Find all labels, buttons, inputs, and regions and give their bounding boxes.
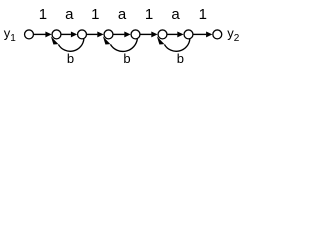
back transition q3-q2 arc bbox=[58, 39, 84, 52]
state q8 bbox=[213, 30, 222, 39]
transition q7-q8 wire bbox=[193, 33, 206, 35]
transition q1-q2 arrowhead bbox=[45, 31, 51, 37]
transition q5-q6 arrowhead bbox=[151, 31, 157, 37]
back transition q5-q4 arrowhead bbox=[103, 36, 111, 44]
transition q4-q5 wire bbox=[113, 33, 124, 35]
state q3 bbox=[78, 30, 87, 39]
back transition q5-q4 arc bbox=[110, 39, 137, 52]
transition q2-q3 arrowhead bbox=[71, 31, 77, 37]
back transition q7-q6 arrowhead bbox=[157, 36, 165, 44]
transition q2-q3 wire bbox=[61, 33, 71, 35]
transition q5-q6 wire bbox=[140, 33, 151, 35]
transition q3-q4 arrowhead bbox=[97, 31, 103, 37]
transition q6-q7 arrowhead bbox=[177, 31, 183, 37]
svg-text:b: b bbox=[67, 51, 74, 66]
svg-text:a: a bbox=[65, 6, 74, 23]
back transition q7-q6 arc bbox=[164, 39, 190, 52]
svg-text:a: a bbox=[118, 6, 127, 23]
state q5 bbox=[131, 30, 140, 39]
svg-text:1: 1 bbox=[145, 6, 153, 23]
svg-text:b: b bbox=[123, 51, 130, 66]
transition q3-q4 wire bbox=[87, 33, 98, 35]
svg-text:1: 1 bbox=[199, 6, 207, 23]
svg-text:b: b bbox=[177, 51, 184, 66]
svg-text:y2: y2 bbox=[227, 25, 240, 44]
state q6 bbox=[158, 30, 167, 39]
transition q7-q8 arrowhead bbox=[206, 31, 212, 37]
transition q6-q7 wire bbox=[167, 33, 177, 35]
svg-text:a: a bbox=[171, 6, 180, 23]
svg-text:y1: y1 bbox=[4, 25, 16, 44]
back transition q3-q2 arrowhead bbox=[51, 36, 59, 44]
svg-text:1: 1 bbox=[39, 6, 47, 23]
state q7 bbox=[184, 30, 193, 39]
state q2 bbox=[52, 30, 61, 39]
transition q1-q2 wire bbox=[34, 33, 46, 35]
state q1 bbox=[25, 30, 34, 39]
svg-text:1: 1 bbox=[91, 6, 99, 23]
state q4 bbox=[104, 30, 113, 39]
transition q4-q5 arrowhead bbox=[124, 31, 130, 37]
